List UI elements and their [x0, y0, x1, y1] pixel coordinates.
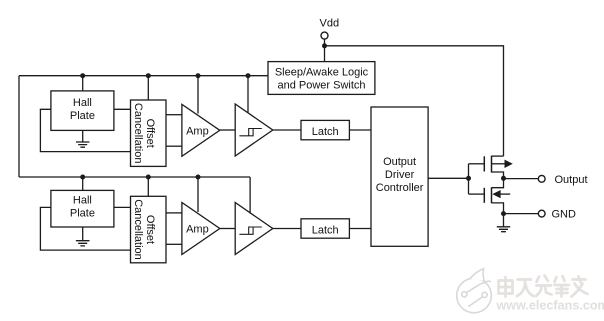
ground hall1 — [76, 130, 90, 147]
hall plate 2 — [51, 190, 114, 227]
node GND — [501, 211, 506, 216]
node output — [501, 176, 506, 181]
wire hall2 left loop — [40, 207, 130, 250]
wire drop to Amp 1 — [197, 76, 199, 114]
wire drop to comparator 1 — [247, 76, 249, 113]
comparator 1 (schmitt trigger) — [235, 104, 273, 156]
wire drop to Amp 2 — [197, 177, 199, 212]
svg-text:Latch: Latch — [312, 126, 339, 138]
sleep/awake logic and power switch — [268, 62, 375, 95]
watermark brand text — [499, 276, 588, 297]
wire output — [504, 178, 539, 180]
svg-text:Driver: Driver — [385, 169, 415, 181]
svg-text:Hall: Hall — [73, 195, 92, 207]
svg-text:Hall: Hall — [73, 97, 92, 109]
wire hall2 to offset2 — [114, 206, 131, 208]
wire latch2 to controller — [349, 228, 371, 230]
node rail1 offset — [146, 73, 151, 78]
svg-text:Cancellation: Cancellation — [132, 103, 144, 164]
node rail1 hall — [80, 73, 85, 78]
hysteresis symbol 1 — [239, 129, 261, 136]
svg-text:Plate: Plate — [70, 110, 95, 122]
svg-text:GND: GND — [552, 208, 577, 220]
GND terminal — [538, 210, 545, 217]
wire offset1 to amp1 lower — [166, 145, 182, 147]
node rail2 offset — [146, 175, 151, 180]
node rail2 amp — [196, 175, 201, 180]
op-amp Amp2 — [182, 203, 220, 255]
svg-text:Vdd: Vdd — [320, 17, 340, 29]
wire controller to gates — [428, 177, 468, 179]
wire GND — [504, 213, 539, 215]
latch 2 — [301, 219, 349, 238]
ground output stage — [497, 214, 510, 232]
wire drop to comparator 2 — [249, 177, 251, 214]
wire drop to Offset Cancellation 2 — [147, 177, 149, 196]
transistor Q2 (lower MOSFET) — [469, 178, 511, 213]
svg-text:Offset: Offset — [144, 119, 156, 148]
wire supply rail row2 — [19, 176, 250, 178]
node Vdd — [322, 43, 327, 48]
wire amp1 to comparator1 — [220, 129, 235, 131]
svg-text:Latch: Latch — [312, 225, 339, 237]
watermark logo — [457, 269, 492, 313]
svg-text:Cancellation: Cancellation — [132, 199, 144, 260]
offset cancellation 1 — [131, 100, 167, 166]
wire Vdd rail to drain — [325, 46, 504, 156]
wire drop to Hall Plate 2 — [82, 177, 84, 190]
wire gate bus — [468, 164, 470, 194]
svg-text:Sleep/Awake Logic: Sleep/Awake Logic — [275, 67, 369, 79]
wire amp2 to comparator2 — [220, 228, 235, 230]
wire offset2 to amp2 lower — [166, 243, 182, 245]
wire left supply bus — [18, 76, 20, 177]
wire drop to Offset Cancellation 1 — [147, 76, 149, 100]
svg-text:www.elecfans.com: www.elecfans.com — [496, 299, 604, 313]
offset cancellation 2 — [131, 196, 167, 262]
svg-text:Output: Output — [555, 174, 588, 186]
hysteresis symbol 2 — [239, 227, 261, 234]
node rail1 amp — [196, 73, 201, 78]
Output terminal — [538, 175, 545, 182]
wire hall1 left loop — [40, 109, 130, 151]
node rail1 comparator — [246, 73, 251, 78]
transistor Q1 (upper MOSFET) — [469, 156, 513, 179]
hall plate 1 — [51, 91, 114, 130]
wire hall1 to offset1 — [114, 108, 131, 110]
wire comparator2 to latch2 — [273, 228, 301, 230]
svg-text:Amp: Amp — [186, 125, 209, 137]
svg-text:and Power Switch: and Power Switch — [277, 79, 365, 91]
wire top supply rail row1 — [19, 75, 268, 77]
svg-text:Amp: Amp — [186, 224, 209, 236]
wire offset2 to amp2 upper — [166, 212, 182, 214]
wire latch1 to controller — [349, 129, 371, 131]
wire offset1 to amp1 upper — [166, 114, 182, 116]
node gate bus — [466, 176, 471, 181]
wire drop to Hall Plate 1 — [82, 76, 84, 91]
svg-text:Plate: Plate — [70, 208, 95, 220]
svg-text:Offset: Offset — [144, 215, 156, 244]
op-amp Amp1 — [182, 104, 220, 156]
svg-text:Controller: Controller — [376, 182, 424, 194]
wire comparator1 to latch1 — [273, 129, 301, 131]
wire Vdd stem — [324, 39, 326, 62]
node rail2 hall — [80, 175, 85, 180]
ground hall2 — [76, 227, 90, 246]
latch 1 — [301, 120, 349, 139]
svg-text:Output: Output — [383, 156, 416, 168]
output driver controller — [371, 107, 428, 246]
comparator 2 (schmitt trigger) — [235, 203, 273, 255]
